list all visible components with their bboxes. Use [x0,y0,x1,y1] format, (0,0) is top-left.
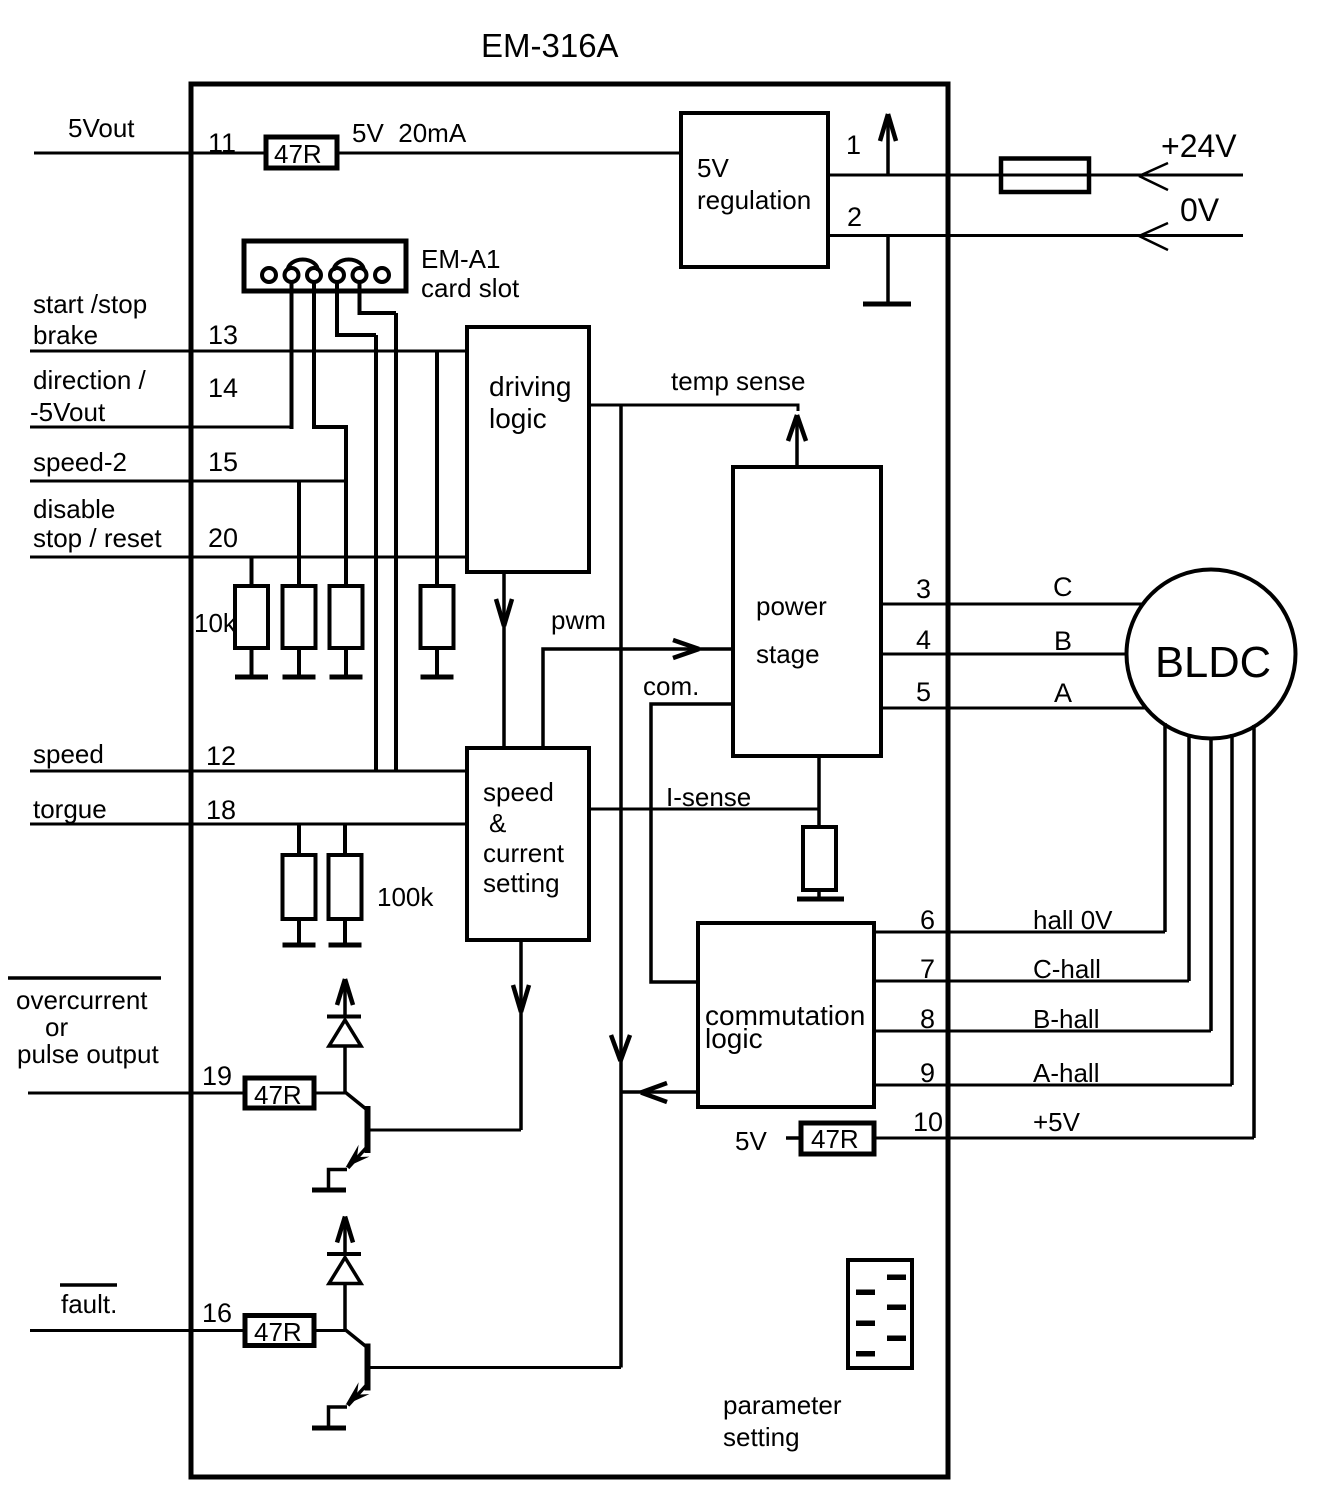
arrowhead +24V input chevron [1139,163,1168,190]
svg-text:start /stop: start /stop [33,289,147,319]
wire pin 16 input [30,1329,245,1332]
ground symbol under Q1 [312,1188,346,1193]
wire R4 to ground [344,648,348,677]
wire R6 to Q1 base [314,1092,345,1095]
wire R9 to ground [343,919,347,945]
svg-text:com.: com. [643,671,699,701]
connector J1 pin circle 5 [353,268,367,282]
transistor Q2 [345,1330,369,1406]
arrowhead 0V input chevron [1139,223,1168,250]
border EM-316A module outline [191,84,948,1477]
wire column x376 down to line 12 [374,335,378,771]
wire line 18 to resistor R8 [297,824,301,855]
resistor R3 10k body [283,586,316,648]
svg-text:hall 0V: hall 0V [1033,905,1113,935]
wire line 15 to resistor R3 [297,481,301,586]
connector J1 pin circle 2 [285,268,299,282]
resistor R8 100k body [283,855,316,919]
ground symbol below pin 2 wire [863,236,911,305]
wire R2 to ground [250,648,254,677]
ground symbol under R5 [421,675,454,680]
overline for overcurrent label [8,976,161,980]
wire +5V vertical from motor [1252,725,1256,1138]
svg-text:47R: 47R [811,1124,859,1154]
wire pin 15 [30,480,346,483]
connector J1 EM-A1 card slot body [244,241,406,291]
vertical bus from temp sense node down to Q2 collector [611,405,630,1368]
resistor R10 shunt body [803,827,836,890]
ground symbol under R8 [283,943,316,948]
svg-text:47R: 47R [254,1317,302,1347]
wire phase B pin 4 [881,653,1127,656]
svg-text:fault.: fault. [61,1289,117,1319]
wire pin 1 +24V input [828,174,1243,177]
svg-text:speed-2: speed-2 [33,447,127,477]
ground symbol under R10 [797,897,844,902]
wire R7 to Q2 base [314,1329,345,1332]
wire R3 to ground [297,648,301,677]
wire U4 output left to vertical bus with arrow [621,1083,698,1102]
svg-text:19: 19 [202,1061,232,1091]
wire jog pin3 to resistor column [312,425,348,429]
wire pwm from U5 to power stage with arrow [543,640,733,748]
svg-text:5: 5 [916,677,931,707]
svg-text:1: 1 [846,130,861,160]
wire card slot pin5 down [358,282,362,313]
svg-text:temp sense: temp sense [671,366,805,396]
wire hall 0V vertical from motor [1163,723,1167,932]
wire C-hall vertical from motor [1187,734,1191,981]
wire U2 output down to U5 with arrow [496,572,512,748]
svg-text:5Vout: 5Vout [68,113,135,143]
svg-text:stop / reset: stop / reset [33,523,162,553]
wire phase C pin 3 [881,603,1143,606]
ground symbol under R2 [235,675,268,680]
svg-text:5V: 5V [735,1126,767,1156]
svg-text:overcurrent: overcurrent [16,985,148,1015]
wire card slot pin3 down [312,282,316,427]
svg-text:disable: disable [33,494,115,524]
wire card slot pin2 down to line 14 [290,282,294,429]
wire B-hall vertical from motor [1209,737,1213,1031]
wire Q1 collector to U5 output [368,1129,522,1132]
wire R1 to 5V regulation [337,152,681,155]
jumper arc pins 2-3 [288,259,319,271]
diode D2 cathode bar [327,1252,361,1256]
wire Q1 emitter to ground [329,1170,348,1189]
wire line 18 to resistor R9 [343,824,347,855]
block U3 power stage [733,467,881,756]
wire R5 to ground [435,648,439,677]
ground symbol under R4 [330,675,363,680]
ground symbol under R3 [283,675,316,680]
svg-text:driving: driving [489,371,571,402]
wire pin 14 to card slot pin2 [30,426,292,429]
svg-text:C-hall: C-hall [1033,954,1101,984]
svg-text:current: current [483,838,565,868]
resistor R7 47R body [245,1316,314,1346]
block U4 commutation logic [698,923,874,1107]
resistor R1 47R body [266,137,337,168]
pull-up arrow above diode D2 [337,1217,353,1255]
svg-text:or: or [45,1012,68,1042]
svg-text:4: 4 [916,625,931,655]
svg-text:47R: 47R [254,1080,302,1110]
svg-text:power: power [756,591,827,621]
svg-text:47R: 47R [274,139,322,169]
connector J1 pin circle 1 [262,268,276,282]
wire pin 20 to driving logic [30,556,467,559]
wire Q2 emitter to ground [329,1407,348,1426]
svg-text:10: 10 [913,1107,943,1137]
transistor Q1 [345,1092,369,1168]
wire line 20 to resistor R2 [250,557,254,586]
svg-text:pwm: pwm [551,605,606,635]
wire card slot pin4 down [335,282,339,335]
block U5 speed & current setting [467,748,589,940]
wire pin 11 input [34,152,266,155]
svg-text:direction /: direction / [33,365,146,395]
wire R10 to ground [817,890,821,899]
svg-text:speed: speed [33,739,104,769]
wire column x396 down to line 12 [394,313,398,771]
svg-text:&: & [489,808,506,838]
motor M1 BLDC body [1127,570,1296,739]
wire pin 10 +5V [874,1137,1254,1140]
svg-text:100k: 100k [377,882,434,912]
resistor R11 47R body [801,1123,874,1154]
wire pin 7 C-hall [874,980,1189,983]
svg-text:BLDC: BLDC [1155,639,1271,687]
svg-text:5V: 5V [697,153,729,183]
wire R8 to ground [297,919,301,945]
svg-text:11: 11 [208,128,236,158]
wire pin 19 input [28,1092,245,1095]
wire D1 anode to Q1 base node [343,1046,347,1094]
svg-text:A: A [1054,678,1072,708]
wire com. from power stage to commutation logic [651,704,733,982]
svg-text:13: 13 [208,320,238,350]
svg-text:regulation: regulation [697,185,811,215]
wire D2 anode to Q2 base node [343,1284,347,1332]
svg-text:stage: stage [756,639,820,669]
svg-text:2: 2 [847,202,862,232]
wire U5 output down to Q1 collector with arrow [513,940,529,1130]
ground symbol under Q2 [312,1426,346,1431]
block U1 5V regulation [681,113,828,267]
wire Q2 collector to vertical bus [368,1366,622,1369]
diode D2 body [329,1258,361,1284]
svg-text:12: 12 [206,741,236,771]
svg-text:A-hall: A-hall [1033,1058,1099,1088]
svg-text:C: C [1053,572,1073,602]
jumper arc pins 4-5 [334,259,365,271]
wire jog pin4 [335,333,376,337]
svg-text:10k: 10k [194,608,237,638]
svg-text:0V: 0V [1180,192,1220,228]
wire jog pin5 [358,311,397,315]
svg-text:5V 20mA: 5V 20mA [352,118,467,148]
svg-text:pulse output: pulse output [17,1039,159,1069]
wire U3 bottom to shunt resistor [817,756,821,827]
svg-text:brake: brake [33,320,98,350]
dip switch SW1 body [848,1260,912,1368]
wire pin 18 to speed setting block [30,823,467,826]
resistor R2 10k body [235,586,268,648]
power symbol arrow up on pin1 wire [880,114,896,175]
connector J1 pin circle 3 [307,268,321,282]
svg-text:18: 18 [206,795,236,825]
fuse F1 [1001,159,1089,193]
resistor R4 10k body [330,586,363,648]
overline for fault label [60,1283,117,1287]
resistor R6 47R body [245,1078,314,1108]
wire A-hall vertical from motor [1230,734,1234,1085]
svg-text:B-hall: B-hall [1033,1004,1099,1034]
wire pin 6 hall 0V [874,931,1165,934]
wire pin 13 to driving logic [30,350,467,353]
wire line13 branch down to resistor R5 [435,351,439,586]
svg-text:card slot: card slot [421,273,520,303]
svg-text:14: 14 [208,373,238,403]
wire phase A pin 5 [881,707,1146,710]
svg-text:setting: setting [483,868,560,898]
svg-text:B: B [1054,626,1072,656]
wire I-sense from U5 to shunt resistor [589,808,819,811]
svg-text:logic: logic [705,1023,763,1054]
wire pin 2 0V input [828,234,1243,237]
svg-text:20: 20 [208,523,238,553]
wire temp sense from U2 [589,405,798,411]
dip switch SW1 levers [856,1275,906,1357]
svg-text:setting: setting [723,1422,800,1452]
svg-text:parameter: parameter [723,1390,842,1420]
svg-text:3: 3 [916,574,931,604]
wire power stage temp output arrow up [788,415,806,467]
ground symbol under R9 [329,943,362,948]
resistor R5 10k body [421,586,454,648]
svg-text:torgue: torgue [33,794,107,824]
svg-text:15: 15 [208,447,238,477]
wire 5V to R11 [786,1136,801,1140]
svg-text:+24V: +24V [1161,128,1237,164]
svg-text:+5V: +5V [1033,1107,1081,1137]
diode D1 body [329,1020,361,1046]
svg-text:16: 16 [202,1298,232,1328]
wire pin 9 A-hall [874,1084,1232,1087]
svg-text:logic: logic [489,403,547,434]
block U2 driving logic [467,327,589,572]
wire pin 12 to speed setting block [30,770,467,773]
pull-up arrow above diode D1 [337,979,353,1017]
svg-text:EM-A1: EM-A1 [421,244,500,274]
resistor R9 100k body [329,855,362,919]
wire column x346 down to resistor R4 [344,427,348,586]
svg-text:speed: speed [483,777,554,807]
connector J1 pin circle 4 [330,268,344,282]
diode D1 cathode bar [327,1015,361,1019]
wire pin 8 B-hall [874,1030,1211,1033]
svg-text:EM-316A: EM-316A [481,27,619,64]
svg-text:-5Vout: -5Vout [30,397,106,427]
connector J1 pin circle 6 [375,268,389,282]
